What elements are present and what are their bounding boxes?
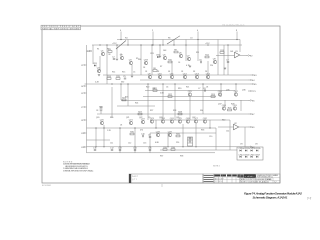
svg-text:6: 6 [197,30,199,32]
svg-text:R24: R24 [135,103,138,105]
svg-text:7-7: 7-7 [307,197,312,201]
svg-text:R32: R32 [188,137,193,139]
node junction [220,83,221,84]
resistor R27 [138,111,143,115]
title block [240,174,280,184]
svg-text:Q18: Q18 [222,105,227,107]
svg-text:Q37: Q37 [218,104,222,106]
svg-text:C14: C14 [133,148,138,150]
transistor Q31 [170,118,175,123]
diode CR12 [250,148,256,151]
svg-text:C3: C3 [190,38,192,40]
svg-text:Q32: Q32 [203,118,208,120]
svg-text:J2: J2 [81,65,83,67]
wire rail y150 [160,149,237,151]
svg-text:C6: C6 [199,60,202,62]
svg-text:R30: R30 [110,117,113,119]
node junction [235,83,236,84]
svg-text:E5: E5 [254,84,257,86]
svg-text:1K: 1K [120,125,123,127]
svg-text:Q21: Q21 [126,117,129,119]
node junction [167,146,168,147]
wire drop x218 [217,40,219,76]
capacitor C6 [199,60,202,64]
node J5 [81,92,86,95]
svg-text:C1: C1 [120,54,122,56]
svg-text:Q23: Q23 [150,118,155,120]
svg-text:J11: J11 [81,133,84,135]
wire vert x117 [116,45,118,58]
transistor Q1 [101,50,105,55]
svg-text:Q8: Q8 [213,58,217,60]
node junction [99,44,100,45]
ground [98,75,100,76]
op-amp U1 [235,51,240,58]
svg-text:Q1: Q1 [101,50,105,52]
svg-text:R7: R7 [160,66,162,68]
resistor R24 [211,94,216,98]
svg-text:Q5: Q5 [163,54,167,56]
wire opamp U2 output [239,126,248,128]
node junction [159,44,160,45]
svg-text:1.2K: 1.2K [107,130,112,132]
node junction [162,44,163,45]
transistor Q27 [194,118,199,123]
capacitor C10 [141,134,146,138]
node J13 [81,146,86,149]
svg-text:2: 2 [152,30,154,32]
svg-text:Q31: Q31 [170,118,175,120]
svg-text:Q6: Q6 [179,52,183,54]
node junction [140,44,141,45]
svg-text:E4: E4 [252,80,255,82]
transistor Q33 [144,59,149,64]
node E3 [250,74,257,77]
resistor R30 [130,131,135,135]
svg-text:Q16: Q16 [218,91,223,93]
transistor Q24 [161,118,166,123]
resistor R8 [153,68,157,72]
parts list dense text block [203,174,214,183]
svg-text:C10: C10 [209,136,212,138]
capacitor C2 [112,57,115,60]
wire rail y90 [145,90,235,92]
svg-text:SIZE D CODE 80063 SK-A1A2-01: SIZE D CODE 80063 SK-A1A2-01 [241,181,269,184]
node J7 [81,106,86,109]
wire vert mid x148 [147,84,149,120]
node TP1 [248,90,257,93]
wire tick x198 [197,32,199,40]
wire drop x174 [173,40,175,46]
svg-text:220: 220 [176,142,179,144]
resistor R12 [205,54,210,57]
svg-text:Q15: Q15 [188,91,193,93]
capacitor C8 [203,88,206,92]
svg-text:U2: U2 [234,123,238,125]
svg-text:CR17: CR17 [255,154,261,156]
node E4 [248,79,255,82]
svg-text:E3: E3 [254,75,257,77]
wire rail y45 [92,44,242,46]
transistor Q14 [206,73,211,78]
wire vert low x150 [149,133,151,153]
svg-text:1 2 3 4 5 6: 1 2 3 4 5 6 [215,181,223,183]
svg-text:R2: R2 [107,49,109,51]
diode CR14 [239,154,245,157]
wire opamp U1 input [216,55,235,57]
svg-text:Q21: Q21 [129,119,134,121]
svg-text:R37: R37 [160,156,163,158]
svg-text:R33: R33 [201,130,204,132]
wire vert x132 [131,65,133,75]
node E6 [248,99,255,102]
diode CR11 [244,148,250,151]
node J1 [87,50,92,53]
svg-text:2.2K: 2.2K [95,82,100,84]
transistor Q9 [148,73,152,78]
resistor R3 [108,49,112,56]
node E9 [248,126,255,129]
svg-text:7-7: 7-7 [274,182,277,184]
svg-text:R27: R27 [150,110,153,112]
wire vert mid x190 [189,97,191,120]
svg-text:Q25: Q25 [176,117,179,119]
svg-text:3. PARTIAL REF DESIG SHOWN FOR: 3. PARTIAL REF DESIG SHOWN FOR A1A2. [63,170,94,173]
svg-text:C13: C13 [143,143,146,145]
node junction [173,44,174,45]
wire vert x107 [106,45,108,84]
transistor Q17 [234,91,239,96]
svg-text:CR: CR [240,144,243,146]
svg-text:C11: C11 [93,148,97,150]
transistor Q15 [188,91,193,96]
node junction [151,44,152,45]
svg-text:Q20: Q20 [100,119,105,121]
svg-text:220: 220 [210,65,213,67]
svg-text:E2: E2 [250,56,253,58]
transistor Q4 [97,67,101,72]
transistor Q19 [233,105,238,110]
transistor Q2 [120,54,124,59]
resistor R14 [107,76,112,80]
wire rail y146 [87,146,253,148]
wire vert mid x230 [229,120,231,150]
wire rail y75 [103,74,250,76]
wire top rail [117,39,240,41]
diode CR10 [239,148,245,151]
wire rail y128 [87,127,217,129]
transistor Q23 [150,118,155,123]
node junction [227,44,228,45]
node junction [202,83,203,84]
wire vert low x120 [119,128,121,153]
node E5 [250,83,257,86]
svg-text:R11: R11 [196,52,199,54]
svg-text:330: 330 [200,110,203,112]
capacitor C13 [118,148,123,151]
resistor R32 [188,137,193,142]
wire vert low x96 [95,128,97,147]
resistor R36 [171,147,176,151]
resistor R22 [168,94,173,98]
node junction [119,146,120,147]
op-amp U2 [234,123,239,130]
svg-text:J5: J5 [81,93,83,95]
wire diagonal B [167,36,180,44]
resistor R25 [99,106,104,111]
wire drop x198 [197,40,199,62]
wire vert mid x163 [162,84,164,120]
transistor Q5 [163,54,167,59]
svg-text:SCHEMATIC: SCHEMATIC [244,175,256,178]
diode CR15 [244,154,250,157]
svg-text:+15V: +15V [112,43,117,45]
svg-text:C6: C6 [166,87,168,89]
resistor R15 [116,76,121,80]
node junction [155,127,156,128]
wire left bus [86,45,88,153]
svg-text:R6: R6 [168,38,170,40]
svg-text:390: 390 [138,59,141,61]
svg-text:Q7: Q7 [187,55,191,57]
node junction [195,146,196,147]
transistor Q7 [187,55,191,60]
diode CR17 [255,154,261,157]
wire vert low x245 [244,127,246,147]
ground [159,56,161,57]
ground [116,59,118,60]
transistor Q28 [156,131,161,136]
node junction [134,127,135,128]
wire vert mid x236 [235,84,237,93]
svg-text:R14: R14 [112,72,115,74]
node junction [209,127,210,128]
capacitor C9 [148,135,151,138]
wire vert x152 [151,45,153,75]
svg-text:C4: C4 [178,62,180,64]
transistor Q25 [178,118,183,123]
capacitor C15 [148,148,153,151]
diode CR2 [156,55,161,58]
ground [189,66,191,67]
wire rail y106 [117,105,155,107]
diode CR13 [255,148,261,151]
svg-text:Q22: Q22 [139,117,142,119]
ground [224,68,226,69]
wire rail y84 [85,83,251,85]
wire vert low x168 [167,133,169,147]
node junction [106,44,107,45]
svg-text:Q26: Q26 [152,88,156,90]
wire vert x208 [207,61,209,75]
resistor R21 [153,88,158,92]
node J2 [81,64,86,67]
svg-text:+: + [260,148,262,150]
capacitor C12 [110,148,115,151]
resistor R13 [220,50,225,53]
svg-text:J4: J4 [81,86,83,88]
wire tick x237 [236,32,238,40]
wire vert x100 [99,56,101,71]
wire tick x153 [152,32,154,40]
svg-text:R40: R40 [222,120,225,122]
svg-text:R38: R38 [180,156,183,158]
svg-text:R29: R29 [231,104,234,106]
svg-text:CR1: CR1 [93,63,98,65]
wire drop x128 [127,40,129,46]
node junction [207,44,208,45]
resistor R10 [168,59,173,62]
resistor R28 [178,111,183,115]
wire vert x160 [159,45,161,55]
wire vert mid x156 [155,120,157,128]
svg-text:R5: R5 [136,58,138,60]
svg-text:+15V: +15V [205,43,210,45]
wire vert x141 [140,45,142,75]
node junction [236,39,237,40]
diode array CR10-CR17 box [237,147,263,160]
wire rail y152 [87,152,216,154]
svg-text:E9: E9 [252,127,255,129]
wire diagonal A [116,41,126,50]
svg-text:NOTE 2: NOTE 2 [213,166,220,168]
wire tick x121 [120,32,122,40]
wire drop x163 [162,40,164,46]
node junction [197,39,198,40]
wire vert low x216 [215,128,217,150]
node junction [111,83,112,84]
diode CR1 [93,63,98,66]
svg-text:1K: 1K [206,87,209,89]
parts list strip [129,174,203,183]
wire drop x153 [152,40,154,46]
svg-text:C7: C7 [198,88,200,90]
wire vert mid x241 [240,100,242,111]
svg-text:C14: C14 [226,131,229,133]
ground [131,76,133,77]
node junction [103,127,104,128]
svg-text:TM 11-6625-2781-14-5: TM 11-6625-2781-14-5 [222,25,245,27]
wire rail y80 [140,79,248,81]
wire rail y133 [150,132,216,134]
node junction [134,146,135,147]
capacitor C7 [226,60,229,63]
resistor network R33 [188,137,193,146]
wire R25 lead [100,112,102,114]
transistor Q16 [218,91,223,96]
wire rail y96 ext [200,96,216,98]
node junction [182,146,183,147]
node junction [127,83,128,84]
svg-text:Q27: Q27 [192,117,195,119]
svg-text:1K: 1K [143,67,146,69]
svg-text:PARTIAL REF DESIG SHOWN: PARTIAL REF DESIG SHOWN [42,28,80,31]
svg-text:C9: C9 [148,117,150,119]
capacitor C14 [133,148,138,151]
svg-text:330: 330 [121,82,124,84]
svg-text:6.8K: 6.8K [155,142,160,144]
node junction [103,146,104,147]
node junction [95,146,96,147]
svg-text:C12: C12 [128,143,131,145]
resistor R35 [163,147,168,151]
svg-text:C12: C12 [110,148,115,150]
wire opamp U1 output [240,55,246,57]
node junction [116,44,117,45]
node J4 [81,85,86,88]
svg-text:C5: C5 [133,72,135,74]
node junction [120,39,121,40]
wire rail y120 [150,119,230,121]
node E7 [248,113,255,116]
transistor Q11 [170,73,175,78]
svg-text:Q36: Q36 [242,90,246,92]
wire drop x240 [239,40,241,53]
node junction [119,127,120,128]
reference designation table [41,25,81,30]
svg-text:10K: 10K [163,50,167,52]
transistor Q32 [203,118,208,123]
node junction [149,146,150,147]
svg-text:R1: R1 [97,49,99,51]
wire vert low x135 [134,128,136,153]
wire vert mid x175 [174,84,176,120]
transistor Q3 [129,59,133,64]
svg-text:E6: E6 [252,100,255,102]
wire vert mid x210 [209,120,211,128]
node junction [127,44,128,45]
transistor Q8 [213,58,217,63]
resistor R23 [122,97,127,101]
wire vert low x104 [103,125,105,147]
node junction [95,127,96,128]
capacitor C11 [93,148,97,151]
resistor R9 [174,49,178,52]
wire vert mid x225 [224,100,226,107]
svg-text:C13: C13 [118,148,123,150]
wire vert x172 [171,61,173,75]
node junction [174,83,175,84]
svg-text:J9: J9 [81,120,83,122]
wire vert low x183 [182,124,184,147]
transistor Q12 [183,73,188,78]
wire vert mid x128 [127,84,129,106]
wire vert mid x221 [220,84,222,97]
svg-text:4: 4 [120,30,122,32]
wire vert low x196 [195,124,197,147]
svg-text:C11: C11 [110,143,113,145]
svg-text:8: 8 [236,30,238,32]
node junction [162,83,163,84]
svg-text:R23: R23 [125,97,128,99]
svg-text:CR: CR [255,144,258,146]
svg-text:10K: 10K [230,51,234,53]
svg-text:5.6K: 5.6K [160,93,165,95]
svg-text:Q17: Q17 [234,91,239,93]
transistor Q21 [129,119,134,124]
wire rail y114 [97,113,248,115]
fold mark tick [161,184,163,187]
wire vert x93 [92,45,94,64]
svg-text:U.S. ARMY ELECTRONICS COMMAND: U.S. ARMY ELECTRONICS COMMAND [257,174,279,177]
svg-text:J7: J7 [81,107,83,109]
svg-text:CR3: CR3 [150,53,154,55]
svg-text:C15: C15 [148,148,153,150]
wire vert mid x203 [202,84,204,114]
svg-text:R19: R19 [178,88,181,90]
transistor Q6 [179,52,183,57]
resistor R31 [176,133,181,137]
